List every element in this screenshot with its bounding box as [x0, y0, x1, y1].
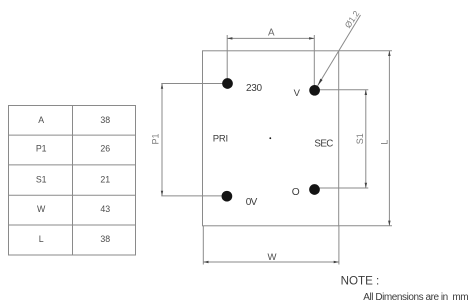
svg-text:38: 38: [100, 115, 110, 125]
terminal 230 (primary top): [222, 78, 233, 89]
svg-text:P1: P1: [151, 133, 161, 144]
dimension W extension line right: [338, 226, 340, 265]
dimension A extension line right (to terminal V): [313, 35, 315, 90]
dimension P1 extension line top (to terminal 230): [161, 83, 227, 85]
dimension A arrow left: [227, 37, 232, 40]
dimension A extension line left (to terminal 230): [226, 35, 228, 84]
svg-text:V: V: [294, 88, 301, 99]
terminal V (secondary top): [309, 85, 320, 96]
table column divider: [72, 106, 74, 256]
dimension S1 arrow bottom: [365, 183, 368, 188]
table row line 2: [9, 164, 136, 166]
terminal 0V (primary bottom): [222, 191, 233, 202]
svg-text:S1: S1: [355, 133, 365, 144]
leader line for hole diameter: [318, 15, 361, 86]
dimension L arrow bottom: [388, 221, 391, 226]
svg-text:L: L: [380, 140, 390, 145]
svg-text:L: L: [39, 234, 44, 244]
table row line 4: [9, 224, 136, 226]
dimension A arrow right: [309, 37, 314, 40]
table row line 3: [9, 194, 136, 196]
dimension P1 arrow top: [161, 84, 163, 89]
dimension P1 line: [161, 84, 163, 196]
table row line 1: [9, 134, 136, 136]
body center mark: [269, 137, 271, 139]
svg-text:230: 230: [246, 83, 263, 94]
svg-text:Ø1.2: Ø1.2: [343, 9, 362, 30]
svg-text:38: 38: [100, 234, 110, 244]
dimension S1 extension line top (from terminal V): [315, 89, 368, 91]
dimension L extension line top: [339, 50, 392, 52]
transformer body outline: [203, 51, 339, 226]
svg-text:W: W: [37, 204, 46, 214]
svg-text:All Dimensions are in mm: All Dimensions are in mm: [363, 292, 468, 303]
dimension W extension line left: [202, 226, 204, 265]
svg-text:PRI: PRI: [213, 134, 228, 145]
svg-text:43: 43: [100, 204, 110, 214]
svg-text:26: 26: [100, 143, 110, 153]
dimension S1 extension line bottom (from terminal O): [315, 187, 369, 189]
dimension W arrow right: [334, 261, 339, 264]
svg-text:S1: S1: [36, 174, 47, 184]
svg-text:NOTE :: NOTE :: [341, 274, 380, 287]
dimension P1 arrow bottom: [161, 191, 163, 196]
dimension L arrow top: [388, 51, 391, 56]
svg-text:0V: 0V: [246, 197, 258, 208]
dimension A line: [227, 37, 314, 39]
svg-text:21: 21: [100, 174, 110, 184]
dimension S1 arrow top: [365, 90, 368, 95]
terminal O (secondary bottom): [309, 184, 320, 195]
svg-text:O: O: [292, 187, 300, 198]
leader arrowhead at terminal V: [318, 79, 323, 86]
dimension table frame: [9, 106, 136, 256]
dimension P1 extension line bottom (to terminal 0V): [161, 195, 227, 197]
svg-text:A: A: [38, 115, 44, 125]
dimension W line: [203, 261, 339, 263]
svg-text:W: W: [268, 252, 277, 263]
dimension L extension line bottom: [339, 225, 392, 227]
dimension S1 line: [365, 90, 367, 188]
svg-text:A: A: [268, 27, 275, 38]
svg-text:SEC: SEC: [314, 138, 333, 149]
dimension L line: [388, 51, 390, 226]
svg-text:P1: P1: [36, 143, 47, 153]
dimension W arrow left: [203, 261, 208, 264]
